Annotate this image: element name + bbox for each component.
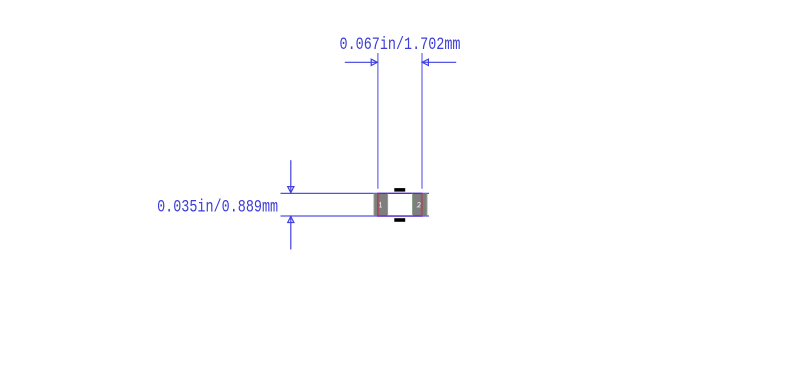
pad 2 inner green edge [412,194,414,216]
pad number 2 [418,202,421,207]
body right red edge [421,194,423,216]
component body outline (purple) [378,193,422,216]
extension line bottom (horizontal, y=216.0) [281,215,430,217]
dimension arrow bottom (points up) [288,216,294,249]
svg-text:0.067in/1.702mm: 0.067in/1.702mm [340,36,461,55]
pad 2 outer green edge [426,194,428,216]
svg-text:0.035in/0.889mm: 0.035in/0.889mm [157,199,278,218]
dimension arrow right (points left) [422,59,456,65]
top black bar [394,188,405,192]
extension line right (vertical, x=421.9) [421,53,423,189]
pad 1 inner green edge [387,194,389,216]
extension line left (vertical, x=377.7) [377,53,379,189]
terminal pad 2 (right, gray) [412,193,427,215]
pad 1 outer green edge [373,194,375,216]
dimension arrow left (points right) [345,59,378,65]
pad number 1 [379,202,382,207]
dimension arrow top (points down) [288,160,294,193]
terminal pad 1 (left, gray) [374,193,388,215]
body left red edge [377,194,379,216]
bottom black bar [394,218,405,222]
extension line top (horizontal, y=193.1) [281,192,430,194]
